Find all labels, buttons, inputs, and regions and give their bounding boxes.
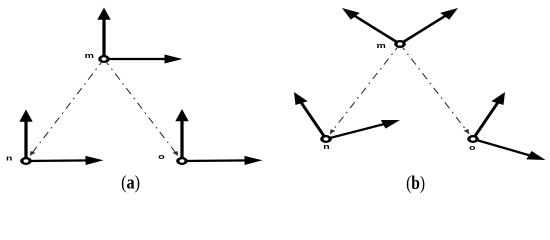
svg-text:(a): (a) xyxy=(121,173,140,194)
svg-text:o: o xyxy=(469,143,476,151)
svg-text:o: o xyxy=(158,153,165,161)
svg-text:n: n xyxy=(6,154,12,162)
svg-text:m: m xyxy=(376,42,385,50)
svg-text:n: n xyxy=(323,142,329,150)
svg-text:m: m xyxy=(85,52,94,60)
svg-text:(b): (b) xyxy=(406,173,425,194)
